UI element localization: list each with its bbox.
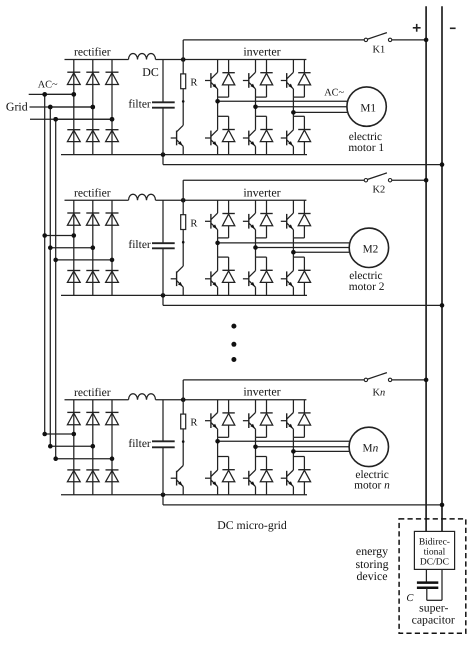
- svg-text:DC micro-grid: DC micro-grid: [217, 519, 287, 532]
- svg-text:M2: M2: [363, 244, 379, 256]
- svg-text:Bidirec-: Bidirec-: [419, 538, 450, 548]
- svg-text:rectifier: rectifier: [74, 187, 111, 200]
- svg-text:motor n: motor n: [354, 479, 390, 491]
- svg-text:rectifier: rectifier: [74, 46, 111, 59]
- svg-text:filter: filter: [128, 98, 151, 110]
- svg-text:R: R: [190, 78, 197, 89]
- svg-text:Grid: Grid: [6, 99, 28, 113]
- svg-text:K2: K2: [372, 184, 385, 195]
- svg-text:C: C: [406, 593, 414, 604]
- svg-text:R: R: [190, 218, 197, 229]
- svg-text:DC: DC: [142, 65, 159, 79]
- svg-text:inverter: inverter: [243, 185, 280, 199]
- svg-text:inverter: inverter: [243, 45, 280, 59]
- svg-text:K1: K1: [372, 44, 385, 55]
- svg-text:AC~: AC~: [324, 87, 344, 98]
- svg-text:device: device: [356, 569, 387, 583]
- svg-text:Kn: Kn: [372, 387, 385, 398]
- svg-text:filter: filter: [128, 239, 151, 251]
- svg-text:motor 2: motor 2: [349, 281, 385, 293]
- svg-text:Mn: Mn: [363, 443, 379, 455]
- svg-text:inverter: inverter: [243, 385, 280, 399]
- svg-text:filter: filter: [128, 438, 151, 450]
- svg-text:capacitor: capacitor: [412, 612, 455, 626]
- svg-text:tional: tional: [424, 548, 446, 558]
- svg-text:AC~: AC~: [38, 79, 58, 90]
- svg-text:M1: M1: [360, 102, 376, 114]
- svg-text:R: R: [190, 418, 197, 429]
- svg-text:rectifier: rectifier: [74, 386, 111, 399]
- svg-text:motor 1: motor 1: [348, 142, 384, 154]
- svg-text:DC/DC: DC/DC: [420, 558, 449, 568]
